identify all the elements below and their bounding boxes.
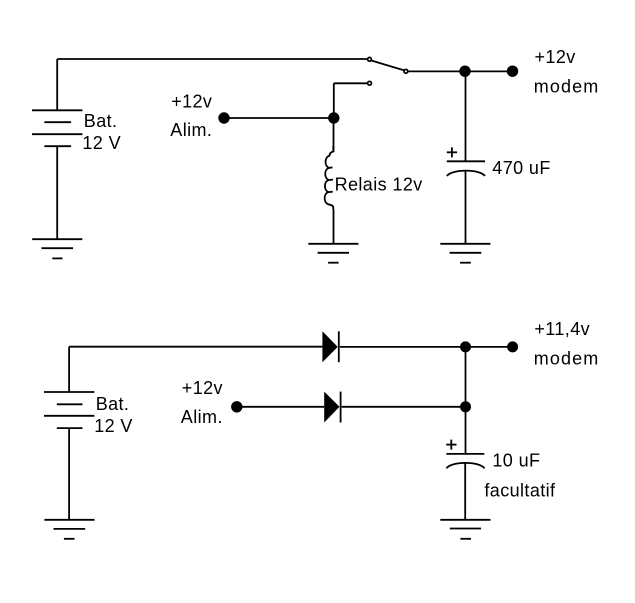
svg-text:+12v: +12v	[171, 91, 212, 111]
node +12v modem terminal dot	[507, 66, 518, 77]
ground (C1)	[440, 244, 490, 263]
svg-text:12 V: 12 V	[94, 416, 133, 436]
node Alim terminal dot (bottom)	[231, 401, 242, 412]
diode D2 cathode bar	[340, 392, 342, 423]
svg-text:Alim.: Alim.	[170, 120, 212, 140]
wire D2 to junction	[342, 406, 466, 408]
wire battery B2 top vertical	[68, 347, 70, 392]
battery B2 (Bat. 12 V)	[44, 392, 94, 428]
capacitor C1 curved plate	[447, 171, 485, 176]
capacitor C2 curved plate	[446, 463, 484, 469]
svg-text:Alim.: Alim.	[181, 407, 223, 427]
svg-text:Bat.: Bat.	[84, 111, 118, 131]
wire relay coil bottom lead	[333, 210, 335, 244]
wire Alim to relay node	[224, 117, 334, 119]
svg-text:modem: modem	[534, 77, 600, 97]
switch SW1 contact right (open circle)	[404, 69, 408, 73]
capacitor C2 top plate	[446, 453, 484, 455]
battery B1 (Bat. 12 V)	[32, 110, 82, 146]
wire battery B2 bottom vertical	[68, 428, 70, 520]
node junction capacitor top (filled dot)	[459, 66, 470, 77]
node junction diode2 (filled dot)	[460, 401, 471, 412]
wire lower contact horizontal	[334, 82, 368, 84]
diode D2 (bottom) triangle	[324, 392, 339, 423]
svg-text:12 V: 12 V	[82, 133, 121, 153]
label + polarity (C1)	[447, 147, 457, 157]
wire capacitor C1 bottom lead	[465, 171, 467, 245]
svg-text:facultatif: facultatif	[484, 481, 556, 501]
switch SW1 contact left (open circle)	[368, 57, 372, 61]
label + polarity (C2)	[446, 440, 456, 450]
wire top horizontal bus to switch	[57, 58, 368, 60]
node junction relay (filled dot)	[328, 112, 339, 123]
switch SW1 lower contact (open circle)	[368, 81, 372, 85]
node +11,4v modem terminal dot	[507, 341, 518, 352]
diode D1 (top) triangle	[322, 331, 337, 362]
wire lower contact vertical to coil node	[333, 83, 335, 118]
svg-text:10 uF: 10 uF	[492, 451, 540, 471]
svg-text:470 uF: 470 uF	[492, 158, 550, 178]
wire battery B1 bottom vertical	[56, 146, 58, 239]
svg-text:modem: modem	[534, 349, 600, 369]
wire relay coil top lead	[333, 118, 335, 152]
node Alim terminal dot (top)	[218, 112, 229, 123]
node junction top (filled dot, bottom circuit)	[460, 341, 471, 352]
svg-text:+12v: +12v	[535, 47, 576, 67]
inductor L1 relay coil	[325, 146, 334, 210]
diode D1 cathode bar	[338, 331, 340, 362]
ground (top battery)	[32, 239, 82, 258]
wire battery B1 top vertical	[56, 59, 58, 110]
ground (bottom battery)	[44, 520, 94, 539]
svg-text:+11,4v: +11,4v	[534, 319, 590, 339]
wire junction vertical	[465, 347, 467, 454]
wire bottom bus to diode D1	[69, 346, 322, 348]
svg-text:Bat.: Bat.	[96, 394, 130, 414]
wire D1 to junction	[340, 346, 513, 348]
capacitor C1 top plate	[447, 160, 485, 162]
ground (relay)	[308, 244, 358, 263]
ground (C2)	[440, 520, 490, 539]
wire Alim to diode D2	[237, 406, 324, 408]
switch SW1 blade	[372, 61, 404, 71]
wire capacitor C1 top lead	[465, 71, 467, 161]
wire capacitor C2 bottom lead	[464, 463, 466, 520]
svg-text:Relais 12v: Relais 12v	[335, 175, 423, 195]
svg-text:+12v: +12v	[182, 378, 223, 398]
wire switch to modem node	[408, 70, 512, 72]
